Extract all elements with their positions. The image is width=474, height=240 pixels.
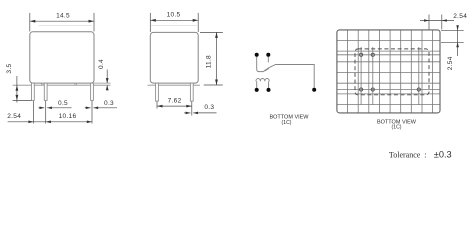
svg-text:0.4: 0.4 <box>98 59 105 69</box>
seat line under side body <box>148 84 201 86</box>
node coil terminal B <box>267 88 271 92</box>
coil K1 <box>256 78 269 81</box>
contact blade <box>265 68 269 71</box>
dimension 0.5 (pin2 width) <box>39 107 72 109</box>
pin holes <box>360 53 421 91</box>
ghost scan line side <box>151 25 197 27</box>
dimension 7.62 bottom <box>157 102 192 116</box>
relay outline dashed <box>355 49 429 95</box>
dimension 0.3 (side pin) <box>184 112 217 114</box>
svg-text:2.54: 2.54 <box>453 13 467 20</box>
svg-text:7.62: 7.62 <box>168 98 182 105</box>
ghost scan line left <box>39 25 92 27</box>
node NO terminal <box>312 88 316 92</box>
pin 1 <box>32 83 35 100</box>
seating plane line <box>13 84 111 86</box>
dimension 2.54 right side <box>441 26 464 56</box>
dimension 3.5 left <box>16 76 18 103</box>
svg-text:11.8: 11.8 <box>206 55 213 68</box>
body bottom extension right (0.4 dim) <box>94 82 111 84</box>
dimension 14.5 top <box>30 13 94 32</box>
dimension 2.54 top-right <box>420 15 454 30</box>
grid horizontal lines <box>337 40 440 104</box>
svg-text:2.54: 2.54 <box>447 56 454 70</box>
relay body front view <box>30 32 94 83</box>
pin extension lines down <box>34 101 92 124</box>
grid vertical lines <box>348 30 433 113</box>
wire: movable arm from COM to NO terminal <box>257 57 315 88</box>
svg-text:10.16: 10.16 <box>59 113 77 120</box>
svg-text:10.5: 10.5 <box>167 12 181 19</box>
svg-text:0.5: 0.5 <box>58 100 68 107</box>
PCB outline <box>337 30 440 113</box>
dimension 2.54 / 10.16 bottom <box>8 121 92 123</box>
hole centre lines <box>337 47 440 105</box>
dimension 0.3 (pin3 width, front) <box>85 107 117 109</box>
svg-text:0.3: 0.3 <box>204 104 214 111</box>
svg-text:2.54: 2.54 <box>7 113 21 120</box>
svg-text:Tolerance:±0.3: Tolerance:±0.3 <box>389 149 452 159</box>
relay body side view <box>150 32 198 83</box>
side pin right <box>190 83 193 101</box>
svg-text:(1C): (1C) <box>392 124 402 130</box>
pin bottom extension line left <box>13 99 32 101</box>
node COM terminal <box>255 53 259 57</box>
side pin left <box>156 83 159 101</box>
tick marks on seat line <box>74 83 76 85</box>
dimension 11.8 right <box>200 32 223 85</box>
svg-text:14.5: 14.5 <box>56 13 70 20</box>
pin 2 <box>44 83 47 100</box>
dimension 10.5 top <box>150 13 198 32</box>
svg-text:3.5: 3.5 <box>6 64 13 74</box>
dimension 0.4 right <box>106 70 108 91</box>
node NC terminal <box>266 53 270 57</box>
wire: coil leads <box>257 81 269 88</box>
svg-text:(1C): (1C) <box>282 120 292 126</box>
standoff notch <box>41 83 44 85</box>
node coil terminal A <box>255 88 259 92</box>
svg-text:0.3: 0.3 <box>104 100 114 107</box>
wire: NC fixed contact stub <box>267 57 269 63</box>
pin 3 <box>91 83 94 100</box>
